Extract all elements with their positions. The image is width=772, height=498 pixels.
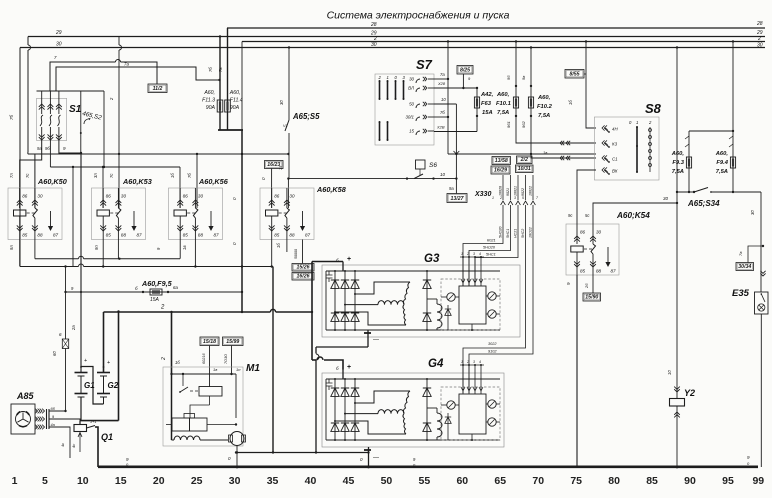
svg-text:4: 4 — [479, 360, 481, 364]
relay K50 contact — [34, 188, 36, 208]
wire X330 pin7 to G4 regulator — [469, 210, 533, 393]
svg-text:7а: 7а — [738, 251, 743, 256]
wire bus30 drop to Y2 — [676, 48, 678, 399]
svg-text:15: 15 — [409, 129, 414, 134]
wire G3 minus drop — [367, 330, 369, 347]
generator G3 brush 1 — [447, 293, 455, 301]
connector tag 15/90 — [583, 293, 601, 301]
svg-text:G4: G4 — [428, 358, 444, 370]
svg-text:5НО20: 5НО20 — [499, 227, 503, 238]
svg-text:S7: S7 — [416, 57, 433, 72]
svg-text:10/31: 10/31 — [518, 166, 531, 172]
wire G2 feed drop — [103, 312, 105, 372]
svg-text:1б: 1б — [276, 243, 281, 248]
svg-text:11/2: 11/2 — [153, 86, 163, 92]
switch A65;S5 — [288, 48, 290, 121]
svg-text:F11.4: F11.4 — [230, 98, 243, 104]
starter M1 motor — [230, 432, 244, 446]
svg-text:9021: 9021 — [506, 188, 510, 196]
battery G2 — [103, 365, 105, 372]
svg-text:8/25: 8/25 — [460, 68, 470, 74]
svg-text:А42,: А42, — [480, 92, 494, 98]
generator G3 minus terminal — [364, 332, 371, 334]
svg-text:G1: G1 — [84, 381, 95, 390]
svg-text:85: 85 — [106, 233, 112, 238]
connector tag 13/58 — [492, 157, 511, 165]
svg-text:A65;S5: A65;S5 — [292, 112, 320, 121]
svg-text:85: 85 — [183, 233, 189, 238]
wire K53 coil feed drop — [102, 167, 104, 208]
generator G4 regulator diode — [447, 413, 449, 440]
wire A85 pin3 — [49, 427, 70, 458]
svg-text:16/26: 16/26 — [297, 274, 310, 280]
wire K58 contact feed — [287, 179, 289, 208]
wire K53 88 drop — [117, 240, 119, 259]
svg-text:Система электроснабжения и пус: Система электроснабжения и пуска — [327, 10, 510, 22]
svg-text:9б2: 9б2 — [521, 121, 526, 128]
wire X330 pin2 to G3 regulator — [469, 210, 511, 286]
generator G4 plus terminal — [342, 370, 344, 380]
wire K58 output trunk down — [272, 267, 274, 453]
switch S1 box — [37, 98, 67, 140]
svg-text:F63: F63 — [481, 101, 492, 107]
wire S7 pin50 down — [434, 103, 456, 105]
svg-text:7О3О: 7О3О — [224, 354, 228, 364]
svg-text:A60,K58: A60,K58 — [316, 185, 347, 194]
svg-text:30: 30 — [198, 194, 204, 199]
wire F9.5 to A85 feed — [65, 267, 67, 340]
wire M1 feed internal — [171, 374, 173, 440]
battery G1 — [80, 363, 82, 372]
svg-text:А60,: А60, — [671, 151, 685, 157]
svg-text:10022: 10022 — [529, 186, 533, 196]
svg-text:9л: 9л — [9, 245, 14, 250]
wire ground rail — [98, 465, 758, 468]
generator G4 regulator box — [441, 387, 500, 440]
connector A85 symbol — [16, 412, 31, 427]
connector tag 15/26 — [292, 264, 314, 272]
connector tag 16/26 — [292, 273, 314, 281]
svg-text:60: 60 — [456, 475, 468, 487]
svg-text:87: 87 — [53, 233, 59, 238]
svg-text:60216: 60216 — [202, 353, 206, 364]
wire K56 coil feed drop — [179, 167, 181, 208]
svg-text:50: 50 — [381, 475, 393, 487]
generator G3 regulator box — [441, 279, 500, 330]
generator G4 box — [322, 373, 504, 447]
svg-text:1в: 1в — [213, 367, 217, 372]
svg-text:ВК: ВК — [612, 169, 618, 174]
lamp E35 with switch — [760, 271, 765, 276]
solenoid Y2 — [674, 387, 680, 392]
wire A85 feed lower — [65, 349, 67, 412]
wire trunk from fuse F11 bar — [241, 42, 243, 131]
svg-text:86: 86 — [106, 194, 112, 199]
generator G4 left rail — [325, 379, 327, 440]
relay K56 pin 87 arrow — [210, 211, 212, 226]
svg-text:10: 10 — [77, 475, 89, 487]
generator G3 field winding — [437, 304, 442, 328]
svg-text:7а: 7а — [440, 72, 445, 77]
wire battery series link — [81, 367, 104, 405]
relay K53 box — [92, 188, 146, 240]
svg-text:85: 85 — [22, 233, 28, 238]
svg-text:30: 30 — [409, 77, 414, 82]
connector tag 16/29 — [491, 166, 510, 174]
svg-text:87: 87 — [137, 233, 143, 238]
wire starter feed row 312 — [104, 311, 271, 313]
wire Y2 to ground — [676, 406, 678, 467]
svg-text:86: 86 — [22, 194, 28, 199]
wire relay distribution row 154 — [28, 153, 289, 155]
wire fuse F9 junction bar — [689, 130, 733, 132]
wire K50 coil drop — [19, 240, 21, 267]
wire S1 feed lower to fuse F11.3 — [56, 67, 220, 91]
svg-text:2: 2 — [757, 36, 761, 42]
wire K54 85 to ground — [576, 275, 578, 466]
svg-text:15/90: 15/90 — [585, 295, 598, 301]
svg-text:A65;S34: A65;S34 — [687, 199, 720, 208]
svg-text:90: 90 — [684, 475, 696, 487]
svg-text:F10.1: F10.1 — [496, 101, 511, 107]
svg-text:A60,: A60, — [229, 90, 241, 96]
relay K58 pin 87 arrow — [302, 211, 304, 226]
wire bus 2 — [242, 41, 765, 43]
svg-text:4с: 4с — [71, 444, 76, 448]
switch S1 contact column 2 — [49, 104, 51, 114]
wire X330 pin1 to G3 regulator — [463, 210, 503, 286]
fuse A42/A60 F63 15A — [476, 88, 478, 132]
generator G3 left rail — [325, 271, 327, 330]
generator G4 connector pins — [462, 365, 464, 394]
switch S7 box — [375, 74, 434, 145]
wire battery minus trunk — [118, 312, 120, 421]
svg-text:30: 30 — [121, 194, 127, 199]
relay K53 coil — [102, 188, 104, 208]
wire M1 ground — [236, 446, 238, 468]
relay K50 pin 87 arrow — [50, 211, 52, 226]
svg-text:A60,: A60, — [203, 90, 215, 96]
battery switch Q1 — [79, 421, 81, 425]
relay K58 coil — [271, 188, 273, 208]
svg-text:4Н: 4Н — [612, 127, 618, 132]
svg-text:85: 85 — [580, 269, 586, 274]
svg-text:ВЛ: ВЛ — [408, 86, 415, 91]
switch S7 position bars — [379, 81, 381, 99]
svg-text:15/18: 15/18 — [203, 339, 216, 345]
connector tag 11/2 — [148, 84, 167, 93]
svg-text:30: 30 — [229, 475, 241, 487]
starter M1 solenoid windings — [172, 418, 190, 431]
svg-text:15/26: 15/26 — [297, 265, 310, 271]
svg-text:M1: M1 — [246, 363, 260, 374]
wire S1 right rail — [103, 91, 105, 167]
svg-text:—: — — [373, 337, 379, 343]
generator G3 bottom rail — [326, 329, 500, 331]
wire G1 feed riser — [80, 153, 82, 372]
svg-text:А60,: А60, — [715, 151, 729, 157]
svg-text:9б: 9б — [45, 146, 50, 151]
svg-text:НС21: НС21 — [514, 229, 518, 238]
svg-text:9б1: 9б1 — [506, 121, 511, 128]
wire bus 30 — [20, 47, 765, 49]
generator G3 connector pins — [462, 257, 464, 286]
svg-text:—: — — [373, 455, 379, 461]
svg-text:10: 10 — [440, 172, 446, 177]
generator G4 bottom rail — [326, 439, 500, 441]
svg-text:А60,: А60, — [496, 92, 510, 98]
svg-text:2: 2 — [161, 357, 167, 361]
connector tag 15/18 — [200, 337, 219, 346]
svg-text:1б: 1б — [568, 100, 573, 105]
svg-text:6а: 6а — [173, 285, 179, 290]
svg-text:1: 1 — [461, 252, 463, 256]
wire S6 to tag 13/27 — [455, 154, 457, 194]
generator G3 brush 3 — [488, 310, 496, 318]
generator G3 rectifier diodes — [334, 271, 336, 330]
svg-text:2: 2 — [160, 305, 165, 311]
svg-text:29: 29 — [55, 30, 62, 36]
svg-text:87: 87 — [611, 269, 617, 274]
starter M1 series winding — [174, 436, 200, 440]
svg-text:86: 86 — [274, 194, 280, 199]
svg-text:25: 25 — [191, 475, 203, 487]
svg-text:15А: 15А — [150, 297, 160, 303]
wire E35 to ground — [760, 314, 762, 467]
svg-text:S8: S8 — [645, 101, 662, 116]
svg-text:88: 88 — [289, 233, 295, 238]
wire K56 contact feed — [196, 154, 198, 208]
generator G4 suppression capacitor — [326, 379, 333, 390]
wire K54 30 to bus30 drop — [593, 203, 677, 224]
svg-text:10020: 10020 — [499, 186, 503, 196]
svg-text:Y2: Y2 — [684, 388, 695, 398]
svg-text:90А: 90А — [206, 105, 216, 111]
starter M1 relay contact — [182, 374, 184, 381]
svg-text:15: 15 — [115, 475, 127, 487]
svg-text:2: 2 — [466, 360, 469, 364]
svg-text:A60,K50: A60,K50 — [37, 177, 67, 186]
svg-text:9п: 9п — [94, 245, 99, 250]
svg-text:88: 88 — [198, 233, 204, 238]
svg-text:2б: 2б — [584, 283, 589, 289]
connector tag 8/55 — [565, 70, 584, 79]
generator G4 stator winding — [355, 391, 410, 403]
svg-text:С1: С1 — [612, 157, 618, 162]
svg-text:1: 1 — [461, 360, 463, 364]
svg-text:F9.4: F9.4 — [716, 160, 728, 166]
generator G3 box — [322, 265, 520, 337]
wire S1 col3 to battery feed — [59, 140, 81, 153]
svg-text:1+1: 1+1 — [90, 420, 96, 424]
generator G4 brush 3 — [488, 418, 496, 426]
wire S1 aux vertical — [80, 91, 82, 153]
wire bus 29 — [28, 36, 765, 38]
svg-text:5НС2: 5НС2 — [521, 229, 525, 238]
wire K50 contact feed — [27, 152, 29, 154]
wire G4 plus link — [312, 359, 316, 361]
svg-text:87: 87 — [305, 233, 311, 238]
svg-text:F11.3: F11.3 — [202, 98, 215, 104]
svg-text:86: 86 — [580, 230, 586, 235]
svg-text:40: 40 — [305, 475, 317, 487]
wire S6 row 178 — [288, 178, 456, 180]
svg-text:1: 1 — [636, 120, 638, 125]
svg-text:1: 1 — [387, 75, 389, 80]
wire K56 coil drop — [179, 240, 181, 259]
svg-text:+: + — [107, 360, 110, 366]
wire K54 86 to S8 ВК — [577, 170, 596, 224]
fuse A60 F9.3 7.5A — [688, 131, 690, 192]
svg-text:85: 85 — [274, 233, 280, 238]
generator G3 suppression capacitor — [326, 271, 333, 282]
svg-text:5НО20: 5НО20 — [483, 246, 496, 250]
svg-text:70: 70 — [532, 475, 544, 487]
wire Q1 actuator — [79, 433, 81, 440]
svg-text:5НС1: 5НС1 — [486, 253, 496, 257]
relay K58 box — [260, 188, 314, 240]
wire fuse F11 junction bar — [218, 129, 243, 131]
svg-text:15/99: 15/99 — [226, 339, 239, 345]
svg-text:F10.2: F10.2 — [537, 104, 553, 110]
svg-text:G3: G3 — [424, 253, 440, 265]
svg-text:7,5А: 7,5А — [716, 169, 728, 175]
svg-text:2/2: 2/2 — [520, 157, 528, 163]
connector tag 13/27 — [447, 194, 467, 203]
generator G4 field diode — [426, 379, 428, 440]
svg-text:1б: 1б — [175, 360, 180, 365]
svg-text:85: 85 — [646, 475, 658, 487]
wire S7 pin30 to bus — [434, 78, 448, 80]
wire tag 15/99 drop — [231, 346, 233, 375]
relay K50 coil — [19, 188, 21, 208]
svg-text:30: 30 — [371, 42, 377, 48]
svg-text:30: 30 — [279, 100, 284, 105]
wire relay row 266 — [20, 266, 78, 268]
svg-text:A60;K54: A60;K54 — [616, 211, 650, 220]
wire bus2 drop to fuses F9.3/F9.4 — [732, 42, 734, 132]
wire S1 col2 drop — [49, 140, 51, 167]
svg-text:3: 3 — [473, 252, 475, 256]
svg-text:88: 88 — [121, 233, 127, 238]
svg-text:G2: G2 — [108, 381, 119, 390]
switch S1 contact column 1 — [41, 104, 43, 114]
generator G3 stator winding — [355, 282, 410, 294]
svg-text:7,5А: 7,5А — [672, 169, 684, 175]
svg-text:15А: 15А — [482, 110, 493, 116]
svg-text:+: + — [84, 358, 87, 364]
svg-text:16/23: 16/23 — [267, 162, 280, 168]
svg-text:Х28: Х28 — [437, 81, 446, 86]
svg-text:7,5А: 7,5А — [497, 110, 509, 116]
wire A85 pin1 — [49, 410, 66, 412]
wire A85 pin2 to battery switch row — [49, 419, 80, 421]
wire F10.1 to S8 pin2 — [516, 141, 596, 143]
svg-text:1в: 1в — [543, 150, 547, 155]
generator G3 brush 2 — [488, 292, 496, 300]
svg-text:A60,F9,5: A60,F9,5 — [141, 279, 173, 288]
svg-text:30: 30 — [750, 210, 755, 215]
generator G4 brush 2 — [488, 400, 496, 408]
svg-text:80: 80 — [608, 475, 620, 487]
fuse A60 F9.4 7.5A — [732, 131, 734, 192]
wire K50 88 drop — [34, 240, 36, 259]
connector tag 30/34 — [736, 263, 754, 271]
relay K50 box — [8, 188, 62, 240]
connector tag 8/25 — [457, 66, 473, 75]
wire S1 to K50 coil — [20, 140, 42, 208]
svg-text:2а: 2а — [71, 325, 76, 331]
wire S7 pin30/1 — [434, 116, 448, 118]
svg-text:A85: A85 — [16, 391, 35, 401]
wire tag 15/18 drop — [209, 346, 211, 388]
switch S8 position bar 2 — [649, 127, 651, 172]
svg-text:A60,K53: A60,K53 — [122, 177, 152, 186]
svg-text:9022: 9022 — [521, 188, 525, 196]
svg-text:X330: X330 — [474, 191, 491, 198]
wire K58 87 drop — [302, 240, 304, 264]
switch S8 contacts — [602, 125, 607, 130]
wire relay output row 258 — [35, 258, 79, 260]
svg-text:30: 30 — [757, 43, 763, 49]
switch S8 box — [594, 117, 659, 180]
relay K56 coil — [179, 188, 181, 208]
wire E35 branch to tag 30/34 — [748, 246, 763, 263]
svg-text:30: 30 — [37, 194, 43, 199]
svg-text:30: 30 — [663, 196, 669, 201]
svg-text:16/29: 16/29 — [494, 168, 507, 174]
wire G3 minus to ground row — [316, 346, 368, 348]
wire bus30 left drop — [19, 48, 21, 267]
generator G4 regulator wiring — [441, 404, 447, 406]
generator G3 regulator unit — [459, 286, 486, 324]
wire S1 feed upper — [50, 62, 116, 91]
wire K58 88 drop — [286, 240, 288, 253]
svg-text:30: 30 — [56, 42, 62, 48]
svg-text:К021: К021 — [487, 239, 496, 243]
svg-text:13/58: 13/58 — [495, 158, 508, 164]
generator G3 field diode — [426, 271, 428, 330]
connector tag 16/23 — [265, 161, 284, 169]
wire K54 88 to tag — [592, 275, 594, 293]
relay K54 pin 87 arrow — [607, 247, 609, 262]
fuse A60 F11.4 90A — [227, 28, 229, 130]
svg-text:7л: 7л — [9, 173, 14, 178]
svg-text:8/55: 8/55 — [569, 72, 579, 78]
fuse A60 F10.2 7.5A — [530, 48, 532, 156]
generator G3 regulator diode — [447, 305, 449, 330]
svg-text:60: 60 — [52, 351, 57, 356]
svg-text:28: 28 — [756, 21, 763, 27]
generator G4 rectifier diodes — [334, 379, 336, 440]
svg-text:S6: S6 — [429, 162, 437, 169]
svg-text:5НС1: 5НС1 — [506, 229, 510, 238]
svg-text:7б: 7б — [9, 114, 14, 120]
svg-text:45: 45 — [343, 475, 355, 487]
fuse A60 F11.3 90A — [219, 37, 221, 131]
relay K56 contact — [194, 188, 196, 208]
svg-text:7б: 7б — [208, 67, 213, 72]
svg-text:4а: 4а — [51, 423, 55, 427]
wire F10.2 to S8 pin3 — [531, 155, 596, 158]
svg-text:50: 50 — [409, 102, 414, 107]
svg-text:30: 30 — [596, 230, 602, 235]
switch S1 contact column 3 — [58, 104, 60, 114]
relay K53 contact — [117, 188, 119, 208]
wire G3/G4 plus vertical — [311, 262, 313, 361]
wire row 154 to S8 — [448, 153, 596, 155]
svg-text:К3: К3 — [612, 142, 618, 147]
